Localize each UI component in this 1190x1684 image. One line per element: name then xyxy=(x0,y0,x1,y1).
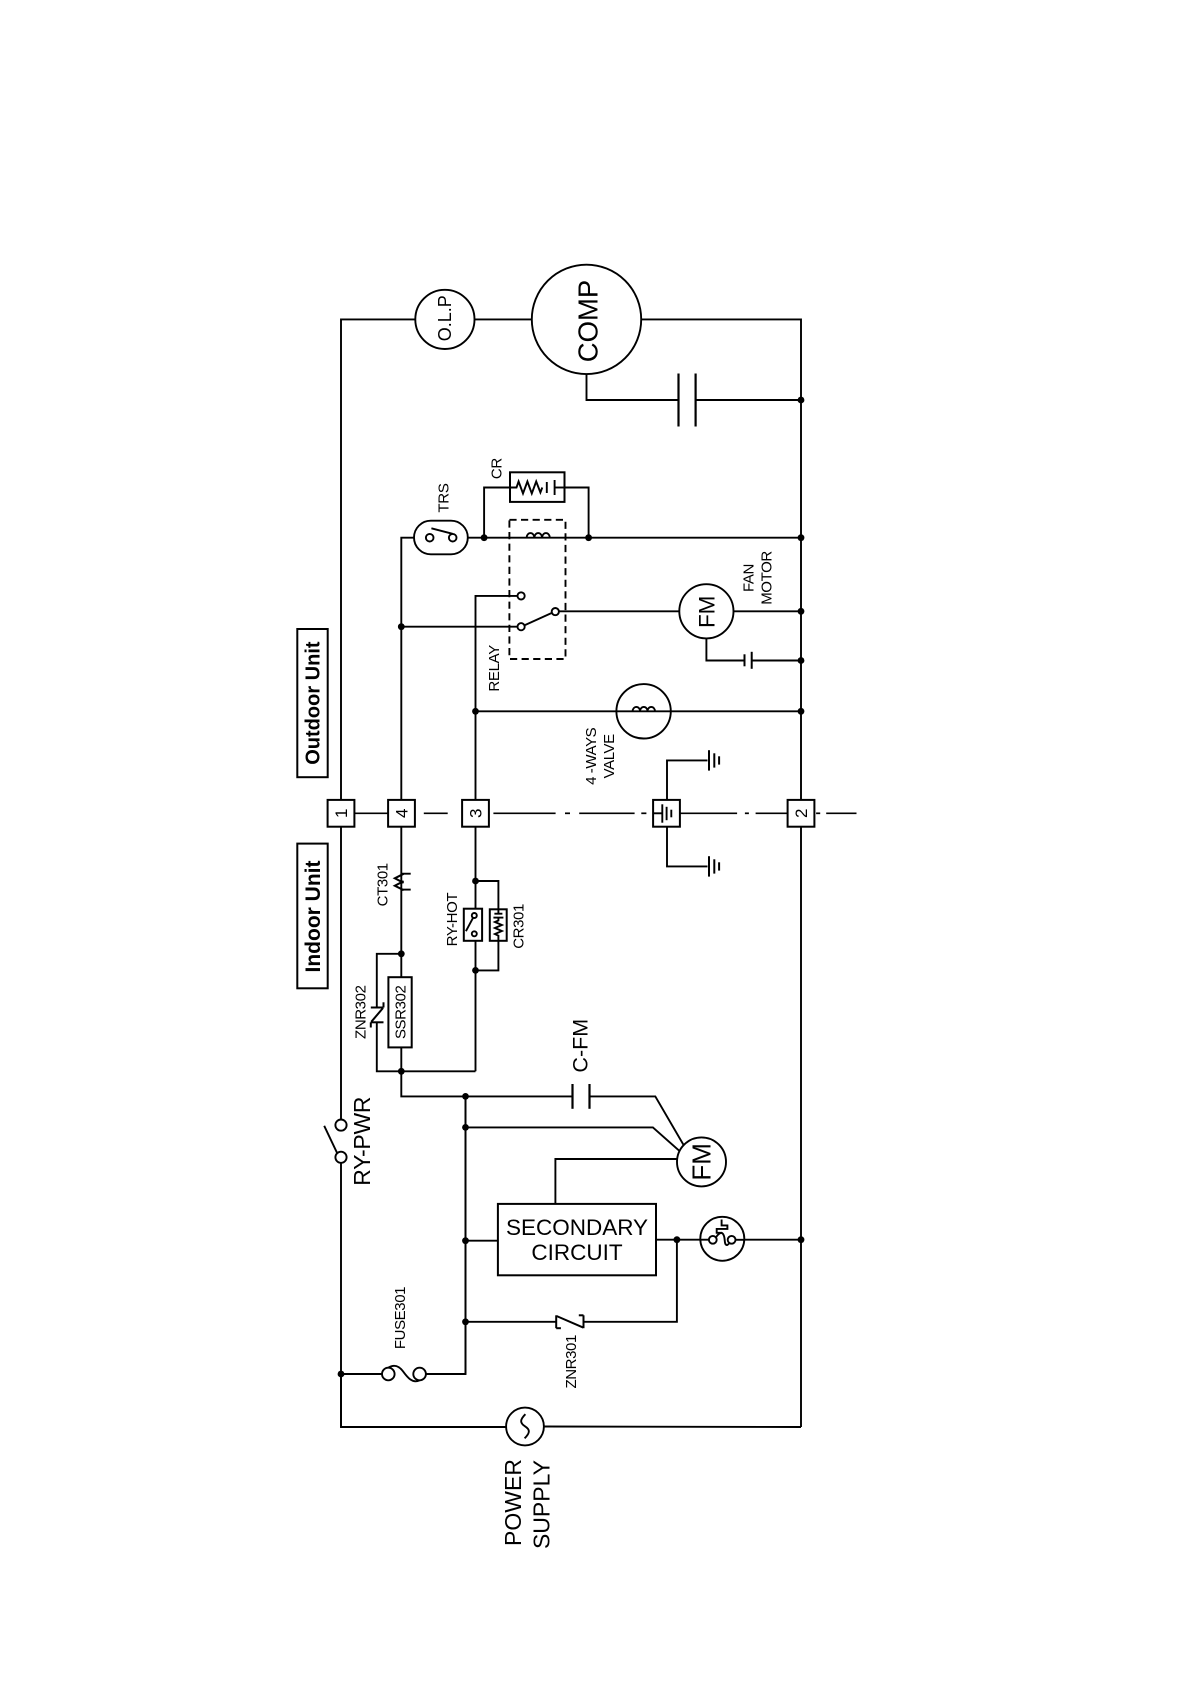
ground upper xyxy=(708,750,710,770)
svg-text:SECONDARY: SECONDARY xyxy=(506,1215,648,1240)
wire indoor bus xyxy=(465,1096,467,1374)
wire SSR302 bottom lead xyxy=(400,1047,402,1071)
coil 4-ways valve xyxy=(633,707,655,711)
wire FM to right bus xyxy=(734,610,802,612)
svg-text:Indoor Unit: Indoor Unit xyxy=(302,861,325,973)
op O.L.P U-olp xyxy=(415,290,474,349)
source POWER SUPPLY xyxy=(506,1408,544,1446)
terminal 3 xyxy=(462,800,489,827)
contact RY-HOT a xyxy=(472,913,477,918)
label Indoor Unit box xyxy=(297,844,327,989)
wire terminal1 to RY-PWR xyxy=(340,827,342,1120)
terminal 4 xyxy=(388,800,415,827)
junction RY-HOT bottom xyxy=(472,967,479,974)
junction CR left xyxy=(481,534,488,541)
snubber CR box xyxy=(510,472,565,502)
relay coil xyxy=(527,533,550,538)
svg-text:CR301: CR301 xyxy=(510,904,527,949)
chain line unit boundary xyxy=(354,812,856,814)
wire indoor fan second lead xyxy=(466,1127,680,1151)
motor FM outdoor xyxy=(679,584,733,638)
wire fuse to indoor bus xyxy=(426,1096,466,1374)
junction right bus fan cap xyxy=(798,657,805,664)
varistor ZNR302 xyxy=(371,1007,384,1009)
wire SSR bottom to terminal3 leg xyxy=(401,1070,475,1072)
resistor in CR301 xyxy=(495,918,502,941)
switch TRS contacts xyxy=(426,534,434,542)
blade RY-HOT xyxy=(466,918,473,931)
terminal 1 xyxy=(328,800,355,827)
svg-text:FAN: FAN xyxy=(740,564,757,592)
relay dashed enclosure xyxy=(509,520,565,659)
connector plug-jack xyxy=(700,1217,744,1261)
switch TRS blade xyxy=(431,528,452,534)
wire CR right lead xyxy=(565,488,589,538)
capacitor fan-run xyxy=(744,654,746,666)
capacitor C-FM xyxy=(571,1084,573,1109)
svg-text:FM: FM xyxy=(687,1143,717,1181)
wire ZNR302 branch top xyxy=(377,954,402,1008)
wire CR301 branch xyxy=(476,881,499,909)
junction ZNR301 branch xyxy=(674,1236,681,1243)
relay RY-HOT box xyxy=(464,909,482,941)
wire FM bottom to fan capacitor xyxy=(706,638,744,660)
wire terminal3 indoor leg xyxy=(475,827,477,1072)
fuse FUSE301 xyxy=(382,1368,395,1381)
svg-text:COMP: COMP xyxy=(573,280,604,363)
junction indoor bus secondary xyxy=(462,1237,469,1244)
wire secondary to fan xyxy=(555,1159,677,1204)
svg-text:VALVE: VALVE xyxy=(601,734,618,779)
svg-text:ZNR302: ZNR302 xyxy=(353,985,370,1039)
transformer CT301 xyxy=(400,827,402,954)
svg-text:RY-HOT: RY-HOT xyxy=(444,893,461,947)
snubber CR301 box xyxy=(490,909,507,941)
box SECONDARY CIRCUIT xyxy=(498,1204,656,1275)
svg-text:RELAY: RELAY xyxy=(486,645,503,692)
compressor COMP xyxy=(532,265,641,374)
terminal earth xyxy=(653,800,680,827)
junction indoor bus ZNR301 xyxy=(462,1318,469,1325)
svg-text:O.L.P: O.L.P xyxy=(435,295,455,341)
wire ZNR301 line xyxy=(584,1240,677,1322)
wire outdoor top bus xyxy=(341,319,801,800)
switch RY-PWR blade xyxy=(324,1126,337,1153)
wire ZNR302 branch bottom xyxy=(377,1022,402,1071)
wire COMP to run capacitor xyxy=(587,374,679,400)
svg-text:RY-PWR: RY-PWR xyxy=(349,1097,375,1186)
svg-text:C-FM: C-FM xyxy=(569,1019,593,1073)
relay SSR302 box xyxy=(388,977,411,1047)
capacitor in CR301 xyxy=(494,913,502,915)
wire bottom bus xyxy=(341,1374,506,1427)
capacitor comp-run xyxy=(677,374,679,427)
wire earth terminal upper ground xyxy=(667,760,708,800)
switch TRS body xyxy=(414,521,468,555)
svg-text:SSR302: SSR302 xyxy=(392,986,409,1040)
junction right bus cap xyxy=(798,397,805,404)
wire power supply to right corner xyxy=(544,1426,801,1429)
junction right bus connector xyxy=(798,1236,805,1243)
wire CR left lead xyxy=(484,488,510,538)
wire C-FM to indoor fan xyxy=(590,1096,684,1145)
wire right bus lower xyxy=(800,827,802,1427)
wire fan capacitor to right bus xyxy=(752,660,801,662)
resistor in CR xyxy=(510,482,542,494)
wire secondary right lead xyxy=(656,1239,700,1241)
wire connector to right bus xyxy=(744,1239,801,1241)
wire TRS left to terminal4 leg xyxy=(401,538,414,801)
wire CR301 bottom xyxy=(476,941,499,971)
varistor ZNR301 xyxy=(555,1315,557,1328)
svg-text:1: 1 xyxy=(332,809,351,818)
junction right bus FM xyxy=(798,608,805,615)
switch RY-PWR contact b xyxy=(335,1152,346,1163)
svg-text:MOTOR: MOTOR xyxy=(759,551,776,605)
solenoid 4-ways valve xyxy=(616,684,670,738)
wire TRS right relay coil line xyxy=(468,537,801,539)
wire relay common to fan motor xyxy=(559,610,679,612)
svg-text:ZNR301: ZNR301 xyxy=(563,1335,580,1389)
junction SSR bottom xyxy=(398,1068,405,1075)
earth symbol in terminal xyxy=(653,812,661,814)
label Outdoor Unit box xyxy=(297,629,327,777)
svg-text:CIRCUIT: CIRCUIT xyxy=(531,1240,622,1265)
wire RY-PWR to fuse junction xyxy=(340,1163,342,1427)
junction indoor bus top xyxy=(462,1093,469,1100)
wire C-FM line xyxy=(401,1071,572,1096)
svg-text:SUPPLY: SUPPLY xyxy=(529,1460,555,1549)
capacitor in CR xyxy=(546,482,548,493)
contact RY-HOT b xyxy=(472,931,477,936)
svg-text:Outdoor Unit: Outdoor Unit xyxy=(303,641,325,765)
wire SSR302 top lead xyxy=(400,954,402,977)
svg-text:FM: FM xyxy=(694,596,719,629)
switch RY-PWR contact a xyxy=(335,1120,346,1131)
relay contact NC xyxy=(518,592,525,599)
svg-text:2: 2 xyxy=(792,809,811,818)
svg-text:CT301: CT301 xyxy=(374,863,391,906)
svg-text:TRS: TRS xyxy=(435,483,452,512)
wire fuse branch left xyxy=(341,1373,382,1375)
wire relay NO to terminal4 leg xyxy=(401,626,517,628)
wire capacitor to right bus xyxy=(696,399,801,401)
relay contact NO xyxy=(518,623,525,630)
relay contact common xyxy=(552,608,559,615)
junction right bus valve xyxy=(798,708,805,715)
svg-text:4 -WAYS: 4 -WAYS xyxy=(583,727,600,785)
junction terminal3 leg valve xyxy=(472,708,479,715)
terminal 2 xyxy=(788,800,815,827)
svg-text:3: 3 xyxy=(467,809,486,818)
junction right bus TRS line xyxy=(798,534,805,541)
svg-text:CR: CR xyxy=(488,458,505,480)
svg-text:POWER: POWER xyxy=(500,1459,526,1546)
relay blade xyxy=(525,613,552,625)
wire relay NC to terminal3 leg xyxy=(476,596,518,800)
junction fuse branch xyxy=(338,1371,345,1378)
svg-text:4: 4 xyxy=(393,809,412,818)
junction RY-HOT top xyxy=(472,878,479,885)
junction indoor bus second xyxy=(462,1124,469,1131)
motor FM indoor xyxy=(677,1137,726,1186)
wire earth terminal lower ground xyxy=(667,827,708,867)
ground lower xyxy=(708,856,710,876)
wire 4-ways valve line xyxy=(476,710,802,712)
svg-text:FUSE301: FUSE301 xyxy=(392,1287,409,1349)
junction SSR top xyxy=(398,950,405,957)
junction CR right xyxy=(585,534,592,541)
wire secondary left lead xyxy=(466,1240,498,1242)
junction terminal4 leg relay xyxy=(398,623,405,630)
